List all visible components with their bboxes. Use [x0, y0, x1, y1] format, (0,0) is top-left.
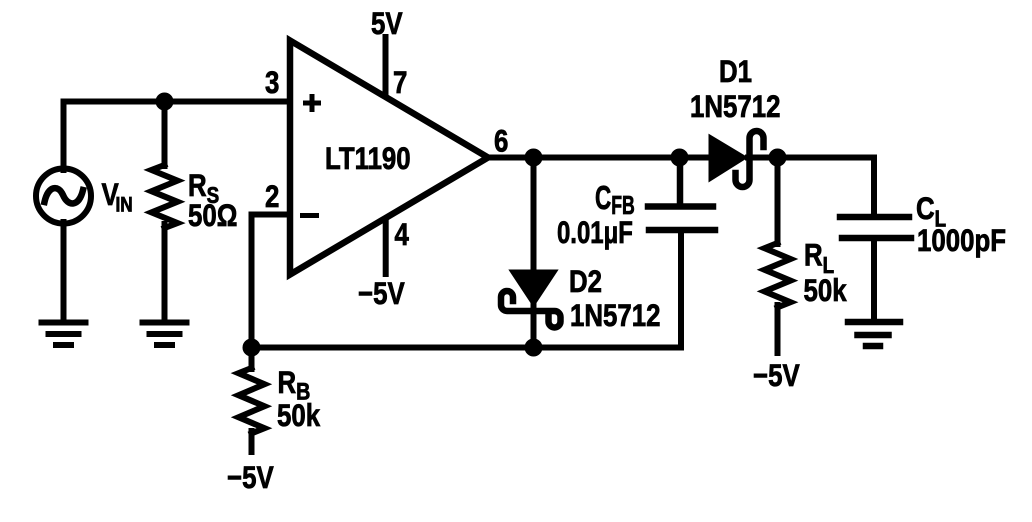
- junction node: output/D2: [525, 149, 543, 167]
- schottky bar D1: [736, 131, 764, 187]
- wire: pin 7 (5V supply): [383, 37, 389, 96]
- wire: CL bottom lead: [871, 240, 877, 320]
- source VIN: [36, 169, 91, 224]
- resistor RL: [765, 243, 791, 307]
- svg-text:50k: 50k: [804, 274, 848, 309]
- op-amp minus input marker: [300, 213, 319, 218]
- op-amp U1 LT1190: [290, 41, 488, 275]
- svg-text:1000pF: 1000pF: [917, 224, 1006, 259]
- wire: VIN top to pin 3: [64, 102, 289, 171]
- svg-text:0.01μF: 0.01μF: [557, 215, 633, 250]
- ground (CL): [848, 322, 900, 346]
- svg-text:VIN: VIN: [102, 178, 133, 217]
- diode D2 (1N5712): [513, 272, 554, 303]
- svg-text:6: 6: [494, 124, 508, 159]
- wire: pin 2 input: [252, 215, 289, 348]
- ground (VIN): [42, 323, 86, 346]
- wire: RL bottom lead: [775, 305, 781, 353]
- svg-text:50Ω: 50Ω: [188, 199, 237, 234]
- junction node: D1 cathode/RL: [769, 149, 787, 167]
- capacitor CFB: [648, 158, 715, 231]
- svg-text:1N5712: 1N5712: [690, 90, 780, 125]
- svg-text:4: 4: [395, 218, 409, 253]
- svg-text:3: 3: [265, 66, 279, 101]
- schottky bar D2: [501, 291, 561, 328]
- wire: RS leads: [162, 102, 168, 167]
- svg-text:50k: 50k: [277, 399, 321, 434]
- svg-text:−5V: −5V: [753, 359, 800, 394]
- op-amp plus input marker: [303, 94, 321, 112]
- wire: CFB bottom lead: [678, 231, 684, 348]
- svg-text:−5V: −5V: [227, 461, 274, 496]
- svg-text:RL: RL: [804, 238, 834, 278]
- capacitor CL: [840, 217, 911, 238]
- junction node: pin2/RB: [243, 339, 261, 357]
- junction node: D2 cathode/feedback: [525, 339, 543, 357]
- wire: D2 anode lead: [531, 158, 537, 274]
- svg-text:2: 2: [265, 180, 279, 215]
- svg-text:7: 7: [393, 66, 407, 101]
- wire: RL top lead: [775, 158, 781, 245]
- wire: D1 cathode to CL corner: [748, 158, 874, 215]
- svg-text:CFB: CFB: [595, 179, 635, 220]
- junction node: CFB top: [671, 149, 689, 167]
- wire: RB bottom lead: [249, 431, 255, 452]
- wire: VIN bottom to ground: [61, 222, 67, 320]
- resistor RB: [239, 368, 265, 433]
- wire: D2 cathode lead: [531, 302, 537, 348]
- wire: pin 4 (-5V supply): [383, 219, 389, 274]
- svg-text:D2: D2: [569, 265, 602, 300]
- diode D1 (1N5712): [711, 138, 744, 178]
- ground (RS): [143, 323, 187, 346]
- svg-text:D1: D1: [719, 55, 752, 90]
- svg-text:1N5712: 1N5712: [570, 299, 660, 334]
- wire: feedback bottom: [252, 345, 682, 351]
- junction node: VIN/RS: [156, 93, 174, 111]
- svg-text:LT1190: LT1190: [325, 142, 411, 177]
- svg-text:5V: 5V: [371, 7, 403, 42]
- svg-text:−5V: −5V: [358, 277, 405, 312]
- resistor RS: [152, 165, 178, 228]
- wire: RB top lead: [249, 348, 255, 370]
- wire: op-amp output: [488, 155, 711, 161]
